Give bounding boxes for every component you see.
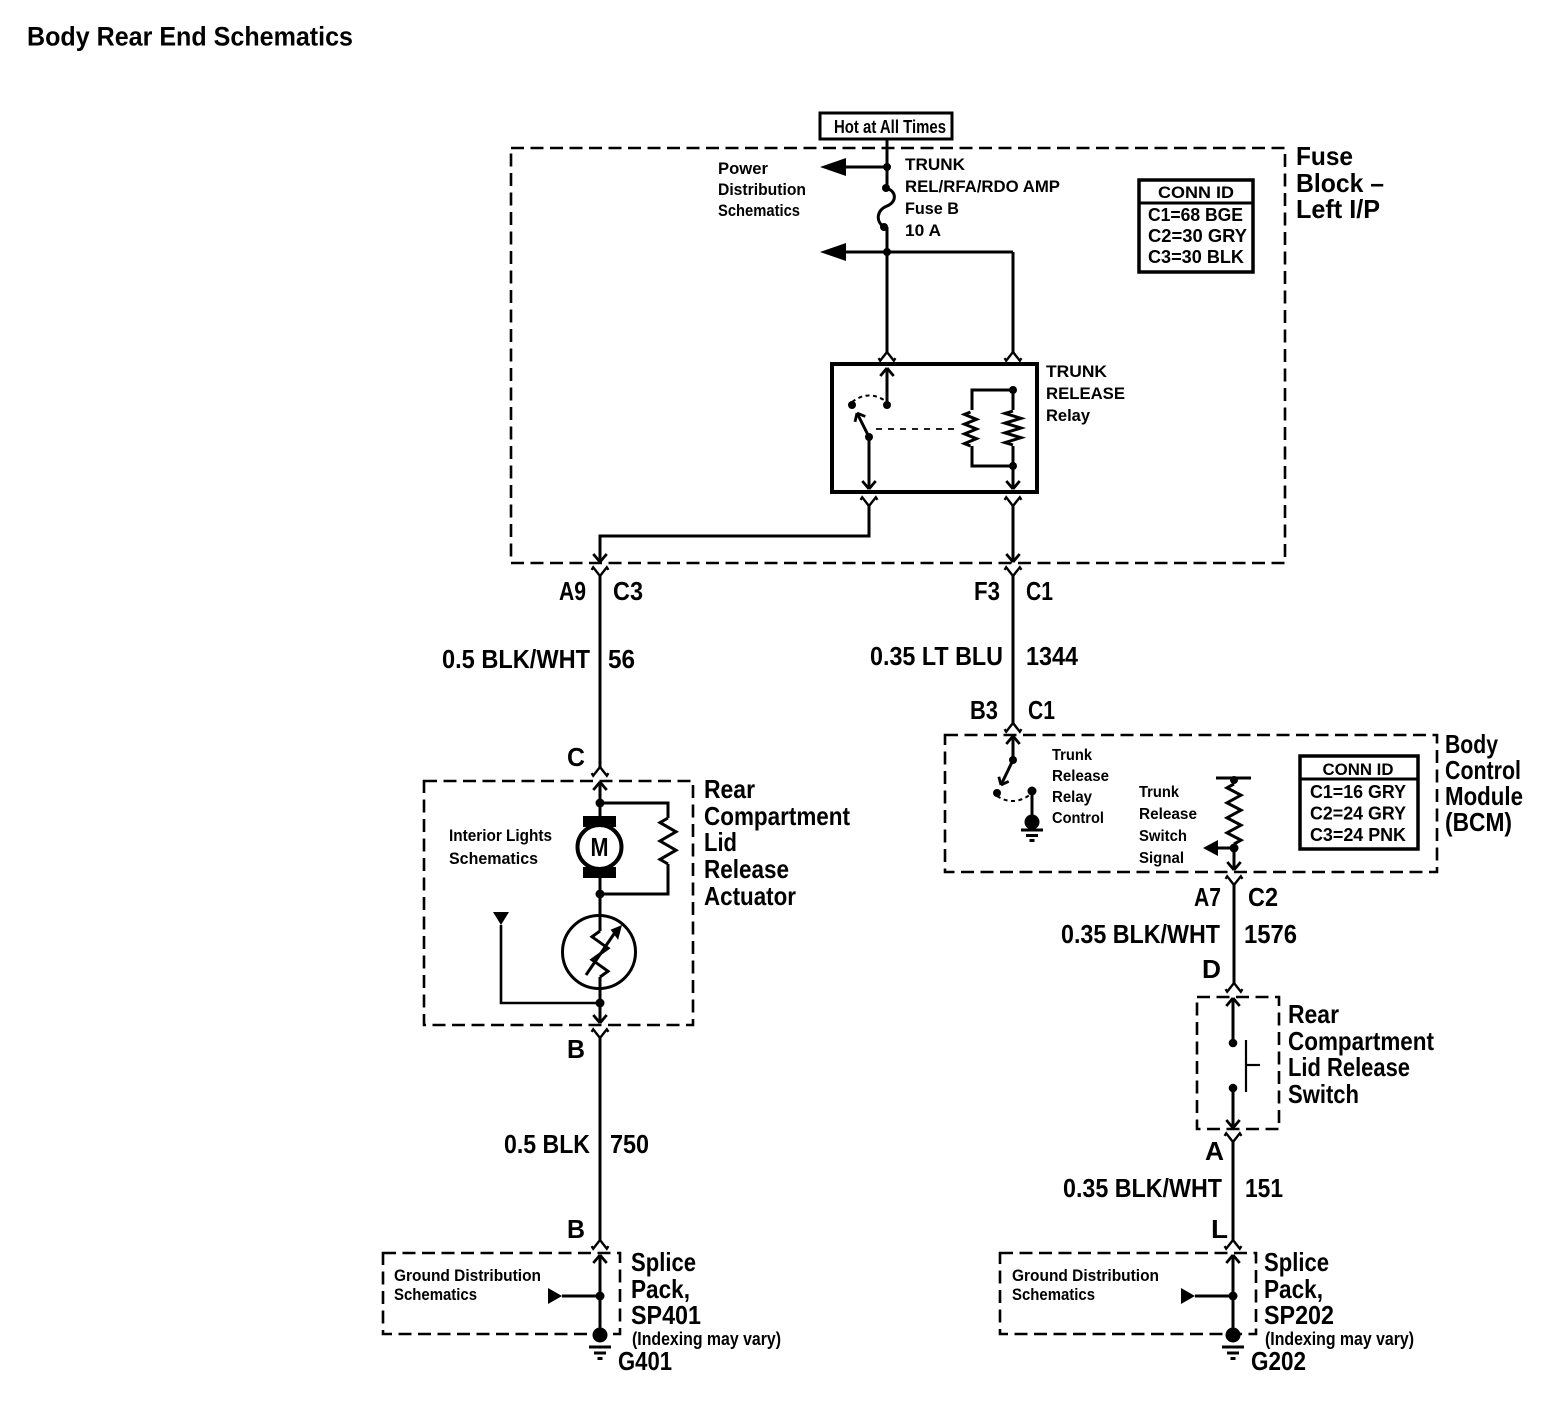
svg-text:1576: 1576: [1244, 919, 1297, 949]
svg-text:TRUNK: TRUNK: [1046, 362, 1108, 381]
svg-text:Splice: Splice: [631, 1247, 696, 1277]
svg-text:0.35 LT BLU: 0.35 LT BLU: [870, 641, 1003, 671]
BCM driver switch lower contact: [993, 789, 1001, 797]
svg-text:0.5 BLK: 0.5 BLK: [504, 1129, 590, 1159]
svg-text:Release: Release: [1139, 806, 1197, 823]
svg-text:Schematics: Schematics: [449, 849, 538, 868]
svg-text:REL/RFA/RDO AMP: REL/RFA/RDO AMP: [905, 177, 1060, 196]
connector chevron below BCM at A7/C2: [1226, 876, 1234, 885]
relay connector chevron at coil feed pin: [1013, 352, 1021, 361]
arrow to ground distribution schematics (left): [548, 1288, 562, 1304]
svg-text:C: C: [567, 742, 585, 772]
svg-text:C3=24 PNK: C3=24 PNK: [1310, 825, 1406, 845]
switch lower contact: [1229, 1084, 1238, 1093]
svg-text:Trunk: Trunk: [1052, 747, 1092, 764]
svg-text:B: B: [567, 1214, 585, 1244]
actuator shunt resistor zigzag: [660, 818, 676, 864]
relay output chevron (switch side): [861, 497, 869, 506]
wire: switch A to splice pack, circuit 151: [1232, 1142, 1235, 1240]
svg-text:G202: G202: [1251, 1346, 1306, 1376]
svg-text:Relay: Relay: [1052, 789, 1092, 806]
relay coil left winding zigzag: [965, 412, 977, 446]
ground G401 symbol: [593, 1328, 608, 1343]
svg-text:C2: C2: [1248, 882, 1278, 912]
svg-text:G401: G401: [618, 1346, 672, 1376]
wire: switch output to pin A with arrow: [1232, 1088, 1235, 1128]
BCM pin B3 arrow entering: [1012, 736, 1015, 760]
splice SP401 entry arrow: [599, 1255, 602, 1296]
svg-text:Lid Release: Lid Release: [1288, 1052, 1410, 1082]
svg-text:L: L: [1211, 1214, 1228, 1244]
svg-text:C2=24 GRY: C2=24 GRY: [1310, 804, 1406, 824]
wire: battery feed from Hot at All Times into fuse block: [886, 139, 889, 188]
thermal limiter diagonal arrow: [586, 931, 616, 975]
thermal limiter resistive element zigzag: [592, 931, 608, 977]
ground distribution dashed box (right): [1000, 1253, 1256, 1334]
svg-text:Interior Lights: Interior Lights: [449, 826, 552, 845]
body control module dashed box: [945, 735, 1437, 872]
svg-text:Switch: Switch: [1139, 828, 1187, 845]
svg-text:Actuator: Actuator: [704, 881, 796, 911]
svg-text:Signal: Signal: [1139, 850, 1184, 867]
switch upper contact: [1229, 1039, 1238, 1048]
svg-text:Power: Power: [718, 159, 768, 178]
svg-text:Switch: Switch: [1288, 1079, 1359, 1109]
relay K: TRUNK RELEASE Relay box: [832, 364, 1037, 492]
interior lights branch arrow (down triangle): [493, 912, 509, 925]
wire to ground G401: [599, 1296, 602, 1330]
svg-text:Hot at All Times: Hot at All Times: [834, 117, 946, 137]
svg-text:A7: A7: [1194, 882, 1221, 912]
BCM pull-up resistor top rail: [1216, 777, 1251, 780]
svg-text:D: D: [1202, 954, 1221, 984]
svg-text:Schematics: Schematics: [1012, 1285, 1095, 1304]
svg-text:C1: C1: [1028, 695, 1055, 725]
svg-text:C1=16 GRY: C1=16 GRY: [1310, 782, 1406, 802]
svg-text:C2=30 GRY: C2=30 GRY: [1148, 226, 1247, 246]
BCM CONN ID table: [1300, 756, 1418, 849]
svg-text:A: A: [1205, 1136, 1224, 1166]
relay switch movable arm: [857, 413, 869, 437]
relay coil output wire with arrow: [1012, 466, 1015, 489]
relay switch fixed contact (feed): [883, 401, 891, 409]
switch actuator bar: [1245, 1040, 1247, 1092]
ground distribution dashed box (left): [383, 1253, 620, 1334]
relay output chevron (coil side): [1005, 497, 1013, 506]
relay switch pivot: [865, 433, 873, 441]
svg-text:Left I/P: Left I/P: [1296, 194, 1380, 224]
relay switch output wire with arrow: [868, 437, 871, 489]
fuse block - left I/P dashed box: [511, 148, 1285, 563]
fuse block CONN ID table: [1139, 180, 1253, 272]
svg-text:SP202: SP202: [1264, 1300, 1334, 1330]
BCM pull-up resistor zigzag: [1227, 784, 1241, 844]
svg-text:Control: Control: [1052, 810, 1104, 827]
svg-text:B3: B3: [970, 695, 998, 725]
svg-text:Fuse B: Fuse B: [905, 199, 959, 218]
svg-text:SP401: SP401: [631, 1300, 701, 1330]
wire to ground G202: [1232, 1296, 1235, 1330]
svg-text:0.5 BLK/WHT: 0.5 BLK/WHT: [442, 644, 590, 674]
thermal limiter circle (PTC): [563, 916, 636, 989]
junction node below fuse: [883, 248, 891, 256]
rear compartment lid release actuator dashed box: [424, 781, 693, 1025]
svg-text:Splice: Splice: [1264, 1247, 1329, 1277]
wire: branch to actuator shunt resistor: [600, 803, 668, 818]
splice junction SP401: [596, 1292, 605, 1301]
svg-text:10 A: 10 A: [905, 221, 941, 240]
wire: to actuator pin B with arrow: [599, 1003, 602, 1023]
svg-text:0.35 BLK/WHT: 0.35 BLK/WHT: [1061, 919, 1220, 949]
svg-text:A9: A9: [559, 576, 586, 606]
svg-text:56: 56: [608, 644, 635, 674]
fuse F: TRUNK REL/RFA/RDO AMP Fuse B 10 A: [882, 184, 890, 192]
BCM signal branch to comparator (left arrow): [1218, 847, 1234, 850]
wire: motor to thermal limiter: [599, 894, 602, 931]
BCM driver switch arm with arrow: [1001, 760, 1013, 785]
connector chevron below fuse block at A9/C3: [592, 567, 600, 576]
BCM internal ground symbol: [1025, 815, 1040, 830]
svg-text:151: 151: [1245, 1173, 1283, 1203]
relay coil lower junction: [1009, 462, 1017, 470]
svg-text:0.35 BLK/WHT: 0.35 BLK/WHT: [1063, 1173, 1222, 1203]
wire: relay switch output to left exit: [600, 506, 869, 562]
svg-text:Distribution: Distribution: [718, 180, 806, 199]
svg-text:1344: 1344: [1026, 641, 1078, 671]
actuator top junction node: [596, 799, 605, 808]
BCM internal ground contact: [1028, 787, 1037, 796]
splice junction SP202: [1229, 1292, 1238, 1301]
svg-text:Rear: Rear: [1288, 999, 1339, 1029]
svg-text:B: B: [567, 1034, 585, 1064]
svg-text:(BCM): (BCM): [1445, 807, 1512, 837]
motor M bottom brush: [583, 867, 616, 878]
ground G202 symbol: [1226, 1328, 1241, 1343]
relay connector chevron at switch feed pin: [887, 352, 895, 361]
svg-text:CONN ID: CONN ID: [1323, 760, 1394, 779]
relay pin arrow: switch feed entering: [886, 368, 889, 405]
connector chevron below fuse block at F3/C1: [1005, 567, 1013, 576]
connector chevron above splice pack SP401: [600, 1240, 608, 1249]
actuator mid junction node: [596, 890, 605, 899]
svg-text:C3=30 BLK: C3=30 BLK: [1148, 247, 1244, 267]
arrow: to Power Distribution Schematics (lower): [820, 243, 846, 261]
svg-text:Fuse: Fuse: [1296, 141, 1353, 171]
svg-text:Release: Release: [1052, 768, 1109, 785]
rear compartment lid release switch dashed box: [1197, 997, 1279, 1129]
svg-text:Trunk: Trunk: [1139, 784, 1179, 801]
connector chevron above release switch: [1234, 983, 1242, 992]
wire below thermal limiter: [599, 977, 602, 1003]
svg-text:Ground Distribution: Ground Distribution: [1012, 1266, 1159, 1285]
actuator pin C arrow entering: [599, 782, 602, 803]
wire: relay coil output down to fuse block exit F3: [1012, 506, 1015, 562]
connector chevron above BCM: [1013, 723, 1021, 732]
svg-text:RELEASE: RELEASE: [1046, 384, 1125, 403]
junction node above Fuse B: [883, 163, 891, 171]
connector chevron above splice pack SP202: [1233, 1240, 1241, 1249]
switch pin D arrow entering: [1232, 998, 1235, 1043]
wire: A7/C2 to switch pin D, circuit 1576: [1233, 885, 1236, 983]
actuator bottom junction node: [596, 999, 605, 1008]
wire: fused feed down to relay coil pin: [1012, 252, 1015, 352]
BCM driver dashed travel arc: [997, 794, 1031, 801]
connector chevron below actuator at B: [592, 1029, 600, 1038]
relay coil right winding zigzag: [1005, 411, 1021, 445]
connector chevron below release switch at A: [1225, 1133, 1233, 1142]
svg-text:Lid: Lid: [704, 827, 737, 857]
wire: BCM signal to pin A7 with arrow: [1233, 848, 1236, 870]
svg-text:CONN ID: CONN ID: [1158, 183, 1234, 202]
svg-text:C1: C1: [1026, 576, 1053, 606]
svg-text:Relay: Relay: [1046, 406, 1091, 425]
relay coil assembly: [1009, 386, 1017, 394]
wire: feed to power distribution (left arrow): [834, 166, 887, 169]
relay switch dashed travel arc: [852, 396, 887, 403]
motor M: release motor: [578, 825, 622, 869]
wire to BCM internal ground: [1031, 791, 1034, 816]
relay dashed actuation link: [876, 428, 958, 430]
BCM driver switch top node: [1009, 756, 1017, 764]
svg-text:Release: Release: [704, 854, 789, 884]
BCM pull-up top junction: [1230, 776, 1238, 784]
wire: fuse output down: [886, 227, 889, 252]
svg-text:750: 750: [610, 1129, 649, 1159]
wire: A9/C3 to actuator pin C, circuit 56: [599, 576, 602, 767]
motor M top brush: [599, 803, 602, 816]
svg-text:C3: C3: [613, 576, 643, 606]
svg-text:Ground Distribution: Ground Distribution: [394, 1266, 541, 1285]
svg-text:TRUNK: TRUNK: [905, 155, 966, 174]
arrow: to Power Distribution Schematics: [820, 158, 846, 176]
power label box: Hot at All Times: [820, 113, 952, 139]
wire: interior lights branch: [501, 925, 600, 1003]
arrow to ground distribution schematics (right): [1181, 1288, 1195, 1304]
connector chevron above actuator: [600, 767, 608, 776]
svg-text:F3: F3: [974, 576, 1000, 606]
svg-text:Body Rear End Schematics: Body Rear End Schematics: [27, 22, 353, 52]
wire: fused feed down to relay switch pin: [886, 252, 889, 352]
wire: actuator B to splice pack, circuit 750: [599, 1038, 602, 1240]
svg-text:C1=68 BGE: C1=68 BGE: [1148, 205, 1243, 225]
arrow at fuse block exit A9: [593, 554, 600, 562]
splice SP202 entry arrow: [1232, 1255, 1235, 1296]
svg-text:Schematics: Schematics: [718, 201, 800, 220]
svg-text:Schematics: Schematics: [394, 1285, 477, 1304]
svg-text:M: M: [591, 832, 609, 862]
svg-text:Rear: Rear: [704, 774, 755, 804]
relay switch fixed contact (output side): [848, 401, 856, 409]
wire: branch to power distribution (second left arrow): [834, 251, 1013, 254]
BCM signal junction: [1230, 844, 1239, 853]
wire: F3/C1 to BCM pin B3, circuit 1344: [1012, 576, 1015, 723]
